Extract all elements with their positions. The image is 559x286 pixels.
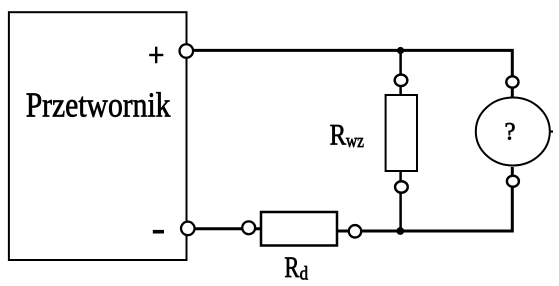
svg-text:Przetwornik: Przetwornik — [26, 87, 171, 125]
svg-text:wz: wz — [346, 131, 364, 152]
svg-text:?: ? — [504, 118, 515, 145]
svg-text:R: R — [330, 120, 347, 152]
svg-text:R: R — [284, 252, 299, 284]
svg-text:d: d — [300, 264, 309, 285]
